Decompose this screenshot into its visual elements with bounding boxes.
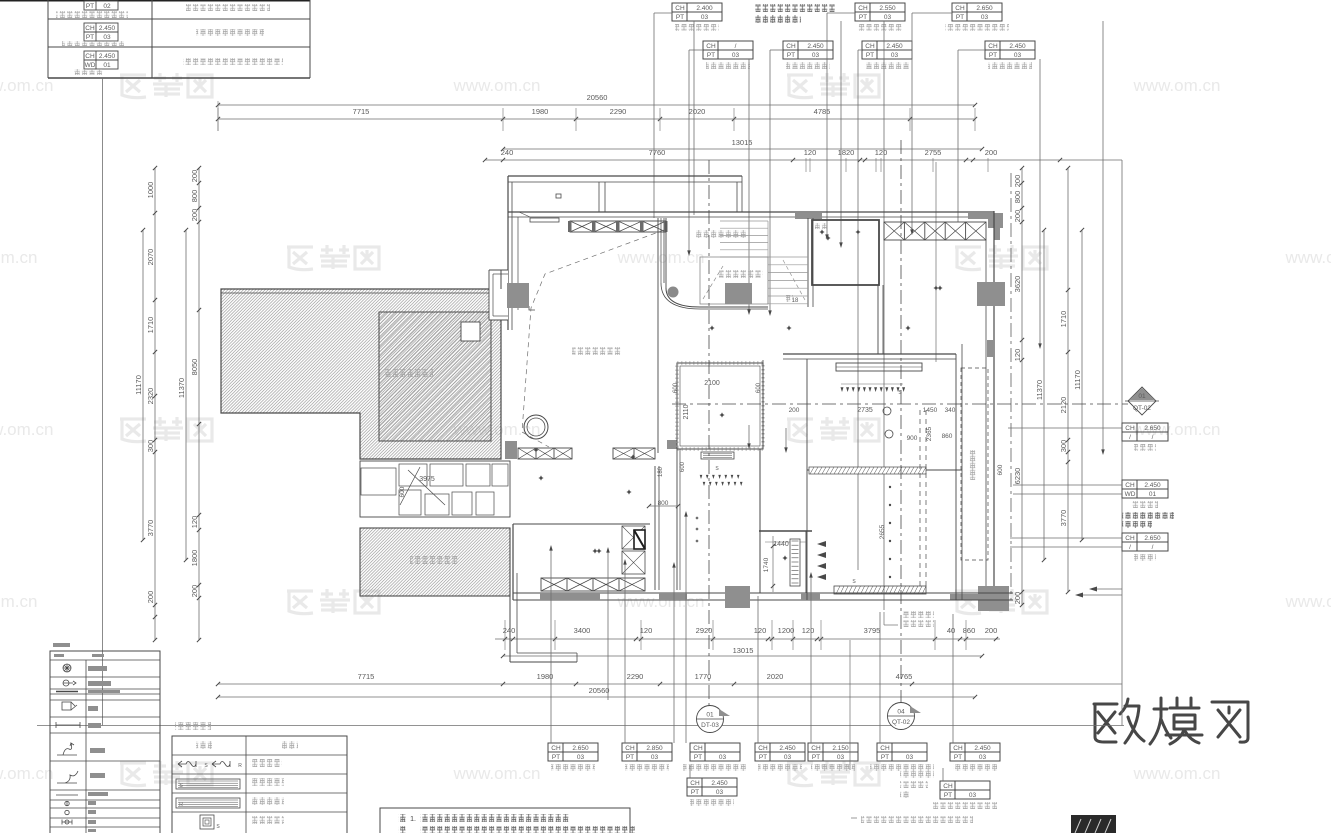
svg-text:03: 03 <box>891 52 899 59</box>
svg-text:CH: CH <box>858 5 868 12</box>
svg-text:20560: 20560 <box>587 93 608 102</box>
svg-text:R: R <box>238 763 242 769</box>
svg-text:PT: PT <box>989 52 997 59</box>
svg-text:2.400: 2.400 <box>696 5 713 12</box>
svg-text:PT: PT <box>944 792 952 799</box>
svg-text:www.om.cn: www.om.cn <box>1285 592 1331 611</box>
svg-text:CH: CH <box>880 745 890 752</box>
svg-text:/: / <box>1129 544 1131 551</box>
svg-text:/: / <box>1152 544 1154 551</box>
svg-text:CH: CH <box>811 745 821 752</box>
svg-text:PT: PT <box>859 14 867 21</box>
svg-text:www.om.cn: www.om.cn <box>453 764 541 783</box>
svg-text:www.om.cn: www.om.cn <box>0 420 53 439</box>
svg-text:WD: WD <box>1125 491 1136 498</box>
svg-text:2290: 2290 <box>627 672 644 681</box>
svg-text:CH: CH <box>706 43 716 50</box>
svg-text:CH: CH <box>551 745 561 752</box>
svg-text:860: 860 <box>963 626 976 635</box>
svg-text:8050: 8050 <box>190 359 199 376</box>
svg-text:2735: 2735 <box>857 407 873 414</box>
svg-text:PT: PT <box>86 3 94 10</box>
svg-text:03: 03 <box>979 754 987 761</box>
svg-text:600: 600 <box>673 382 679 393</box>
svg-text:1200: 1200 <box>778 626 795 635</box>
svg-text:1710: 1710 <box>146 317 155 334</box>
svg-text:PT: PT <box>626 754 634 761</box>
svg-text:1800: 1800 <box>190 550 199 567</box>
svg-text:900: 900 <box>907 435 918 442</box>
svg-text:800: 800 <box>1013 191 1022 204</box>
svg-text:200: 200 <box>1013 210 1022 223</box>
svg-text:03: 03 <box>784 754 792 761</box>
svg-text:4765: 4765 <box>896 672 913 681</box>
svg-text:200: 200 <box>985 626 998 635</box>
svg-text:03: 03 <box>906 754 914 761</box>
svg-text:13015: 13015 <box>733 646 754 655</box>
svg-text:CH: CH <box>865 43 875 50</box>
svg-text:03: 03 <box>1014 52 1022 59</box>
svg-text:02: 02 <box>103 3 111 10</box>
svg-text:20560: 20560 <box>589 686 610 695</box>
svg-text:CH: CH <box>690 780 700 787</box>
svg-text:120: 120 <box>190 516 199 529</box>
svg-text:2.650: 2.650 <box>1144 535 1161 542</box>
svg-text:03: 03 <box>577 754 585 761</box>
svg-text:2.450: 2.450 <box>711 780 728 787</box>
svg-text:180: 180 <box>658 466 664 477</box>
svg-text:1740: 1740 <box>763 557 770 572</box>
svg-text:300: 300 <box>146 440 155 453</box>
svg-text:CH: CH <box>1125 535 1135 542</box>
svg-text:11170: 11170 <box>1073 370 1082 390</box>
svg-text:600: 600 <box>756 382 762 393</box>
svg-text:PT: PT <box>759 754 767 761</box>
svg-text:R: R <box>179 802 183 808</box>
svg-text:PT: PT <box>956 14 964 21</box>
svg-text:2070: 2070 <box>146 249 155 266</box>
svg-text:PT: PT <box>881 754 889 761</box>
svg-text:200: 200 <box>190 209 199 222</box>
svg-text:www.om.cn: www.om.cn <box>1133 76 1221 95</box>
svg-text:200: 200 <box>985 148 998 157</box>
svg-text:PT: PT <box>866 52 874 59</box>
svg-text:03: 03 <box>732 52 740 59</box>
svg-text:03: 03 <box>651 754 659 761</box>
svg-text:PT: PT <box>676 14 684 21</box>
svg-text:/: / <box>735 43 737 50</box>
svg-text:200: 200 <box>190 170 199 183</box>
svg-text:01: 01 <box>706 712 714 719</box>
svg-text:1450: 1450 <box>923 407 938 414</box>
svg-text:2.450: 2.450 <box>99 25 116 32</box>
svg-text:340: 340 <box>945 407 956 414</box>
svg-text:120: 120 <box>804 148 817 157</box>
svg-text:2.850: 2.850 <box>646 745 663 752</box>
svg-text:200: 200 <box>1013 592 1022 605</box>
svg-text:200: 200 <box>146 591 155 604</box>
svg-text:CH: CH <box>85 25 95 32</box>
svg-text:3795: 3795 <box>864 626 881 635</box>
svg-text:PT: PT <box>787 52 795 59</box>
svg-text:PT: PT <box>691 789 699 796</box>
svg-text:120: 120 <box>640 626 653 635</box>
svg-text:2.650: 2.650 <box>1144 425 1161 432</box>
svg-text:www.om.cn: www.om.cn <box>0 764 53 783</box>
svg-text:QT-02: QT-02 <box>892 719 910 726</box>
svg-text:1.: 1. <box>410 816 416 823</box>
svg-text:200: 200 <box>190 585 199 598</box>
svg-text:2.450: 2.450 <box>779 745 796 752</box>
svg-text:1710: 1710 <box>1059 311 1068 328</box>
svg-text:www.om.cn: www.om.cn <box>0 76 53 95</box>
svg-text:2.150: 2.150 <box>832 745 849 752</box>
svg-text:CH: CH <box>758 745 768 752</box>
svg-text:www.om.cn: www.om.cn <box>0 592 37 611</box>
svg-text:800: 800 <box>190 190 199 203</box>
svg-text:/: / <box>1152 434 1154 441</box>
svg-text:120: 120 <box>754 626 767 635</box>
svg-text:3770: 3770 <box>1059 510 1068 527</box>
svg-text:120: 120 <box>875 148 888 157</box>
svg-text:CH: CH <box>953 745 963 752</box>
svg-text:3400: 3400 <box>574 626 591 635</box>
svg-text:2320: 2320 <box>146 388 155 405</box>
svg-text:2.450: 2.450 <box>886 43 903 50</box>
svg-text:11370: 11370 <box>1035 380 1044 400</box>
svg-text:www.om.cn: www.om.cn <box>453 76 541 95</box>
svg-text:03: 03 <box>719 754 727 761</box>
svg-text:600: 600 <box>680 461 686 472</box>
svg-text:PT: PT <box>86 34 94 41</box>
svg-text:2655: 2655 <box>879 524 886 539</box>
svg-text:1980: 1980 <box>532 107 549 116</box>
svg-text:240: 240 <box>503 626 516 635</box>
svg-text:CH: CH <box>955 5 965 12</box>
svg-text:www.om.cn: www.om.cn <box>1285 248 1331 267</box>
svg-text:2.450: 2.450 <box>1009 43 1026 50</box>
svg-text:1820: 1820 <box>838 148 855 157</box>
svg-text:860: 860 <box>942 433 953 440</box>
svg-text:2020: 2020 <box>767 672 784 681</box>
svg-text:CH: CH <box>693 745 703 752</box>
svg-text:7760: 7760 <box>649 148 666 157</box>
svg-text:WD: WD <box>85 62 96 69</box>
svg-text:1000: 1000 <box>146 182 155 199</box>
svg-text:2365: 2365 <box>926 426 933 441</box>
svg-text:01: 01 <box>103 62 111 69</box>
svg-text:2.450: 2.450 <box>807 43 824 50</box>
svg-text:11170: 11170 <box>134 375 143 395</box>
svg-text:CH: CH <box>625 745 635 752</box>
svg-text:03: 03 <box>812 52 820 59</box>
svg-text:200: 200 <box>1013 175 1022 188</box>
svg-text:01: 01 <box>1138 393 1146 400</box>
svg-text:7715: 7715 <box>353 107 370 116</box>
svg-text:120: 120 <box>1013 349 1022 362</box>
svg-text:2.650: 2.650 <box>976 5 993 12</box>
svg-text:2755: 2755 <box>925 148 942 157</box>
svg-text:CH: CH <box>1125 425 1135 432</box>
svg-text:200: 200 <box>789 407 800 414</box>
svg-text:13015: 13015 <box>732 138 753 147</box>
svg-text:03: 03 <box>701 14 709 21</box>
svg-text:www.om.cn: www.om.cn <box>617 248 705 267</box>
svg-text:2.550: 2.550 <box>879 5 896 12</box>
svg-text:www.om.cn: www.om.cn <box>0 248 37 267</box>
svg-text:11370: 11370 <box>177 378 186 398</box>
svg-text:2100: 2100 <box>704 380 720 387</box>
svg-text:4785: 4785 <box>814 107 831 116</box>
svg-text:2020: 2020 <box>689 107 706 116</box>
svg-text:PT: PT <box>812 754 820 761</box>
svg-text:6230: 6230 <box>1013 468 1022 485</box>
svg-text:3975: 3975 <box>419 476 435 483</box>
svg-text:40: 40 <box>947 626 955 635</box>
svg-text:CH: CH <box>1125 482 1135 489</box>
svg-text:3770: 3770 <box>146 520 155 537</box>
svg-text:2920: 2920 <box>696 626 713 635</box>
svg-text:03: 03 <box>837 754 845 761</box>
svg-text:2.450: 2.450 <box>99 53 116 60</box>
svg-text:PT: PT <box>552 754 560 761</box>
svg-text:3620: 3620 <box>1013 276 1022 293</box>
svg-text:2.650: 2.650 <box>572 745 589 752</box>
svg-text:2.450: 2.450 <box>1144 482 1161 489</box>
svg-text:2.450: 2.450 <box>974 745 991 752</box>
svg-text:03: 03 <box>716 789 724 796</box>
svg-text:7715: 7715 <box>358 672 375 681</box>
svg-text:CH: CH <box>943 783 953 790</box>
svg-text:03: 03 <box>884 14 892 21</box>
svg-text:PT: PT <box>694 754 702 761</box>
svg-text:04: 04 <box>897 709 905 716</box>
svg-text:2110: 2110 <box>683 404 690 419</box>
svg-text:CH: CH <box>988 43 998 50</box>
svg-text:03: 03 <box>103 34 111 41</box>
svg-text:/: / <box>1129 434 1131 441</box>
svg-text:2120: 2120 <box>1059 397 1068 414</box>
svg-text:240: 240 <box>501 148 514 157</box>
svg-text:CH: CH <box>85 53 95 60</box>
svg-text:01: 01 <box>1149 491 1157 498</box>
svg-text:600: 600 <box>997 464 1004 475</box>
svg-text:QT-02: QT-02 <box>1133 405 1151 412</box>
svg-text:PT: PT <box>954 754 962 761</box>
svg-text:www.om.cn: www.om.cn <box>1133 764 1221 783</box>
svg-text:300: 300 <box>1059 440 1068 453</box>
svg-text:120: 120 <box>802 626 815 635</box>
svg-text:CH: CH <box>675 5 685 12</box>
svg-text:03: 03 <box>981 14 989 21</box>
svg-text:CH: CH <box>786 43 796 50</box>
svg-text:PT: PT <box>707 52 715 59</box>
svg-text:03: 03 <box>969 792 977 799</box>
svg-text:DT-03: DT-03 <box>701 722 719 729</box>
svg-text:2290: 2290 <box>610 107 627 116</box>
